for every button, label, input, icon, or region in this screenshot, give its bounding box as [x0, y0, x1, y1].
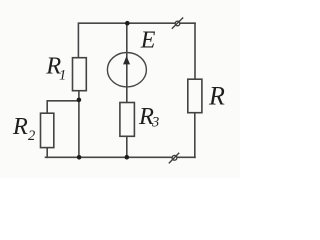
svg-text:E: E: [140, 28, 156, 54]
svg-text:2: 2: [28, 128, 35, 144]
svg-text:R: R: [208, 82, 225, 111]
svg-text:R: R: [12, 113, 28, 140]
svg-text:3: 3: [151, 115, 159, 131]
svg-text:1: 1: [59, 67, 66, 83]
